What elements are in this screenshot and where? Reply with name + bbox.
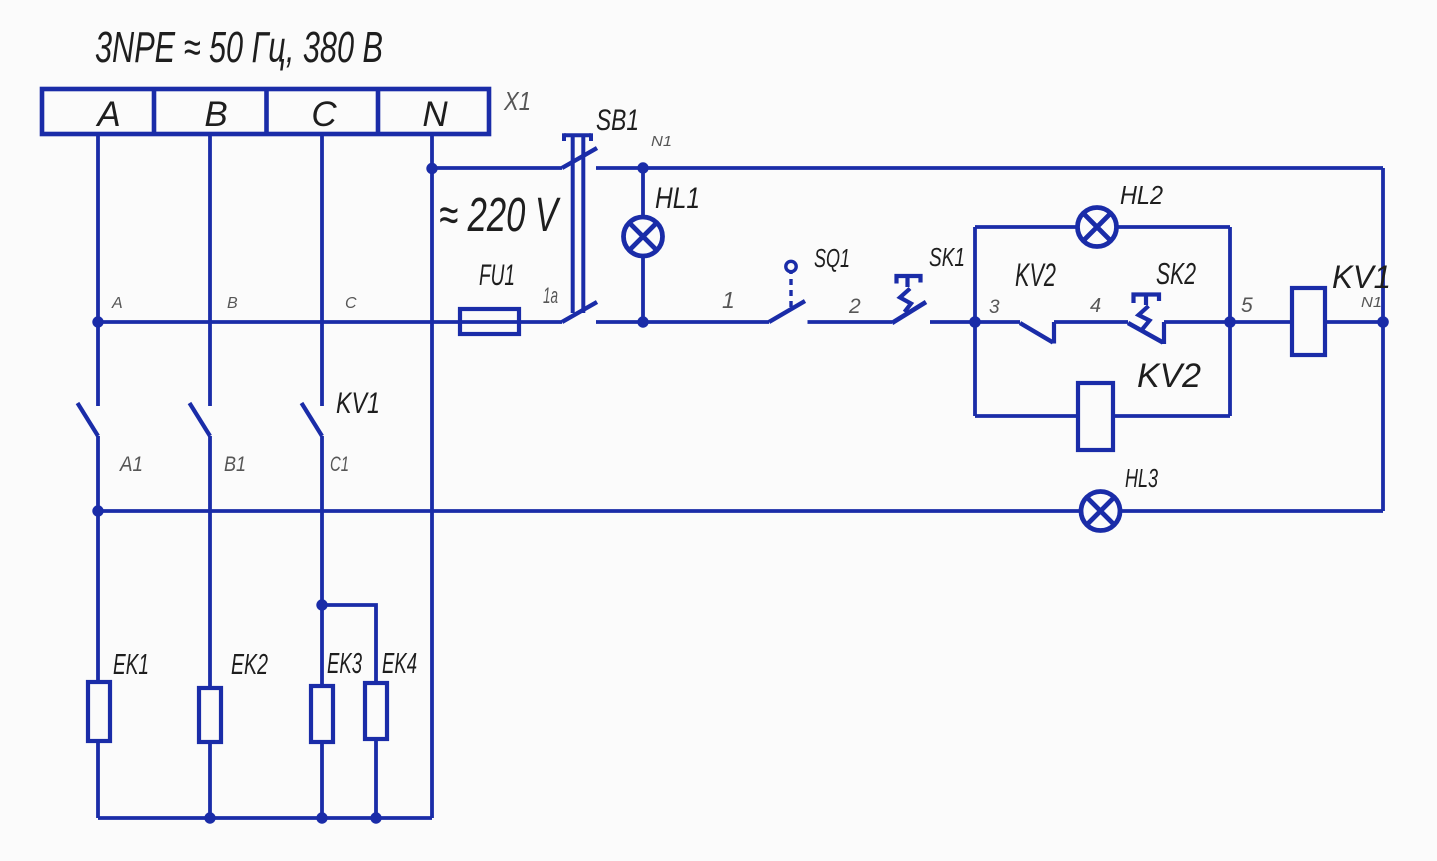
- wire EK2 to bottom rail: [208, 742, 212, 818]
- wire node 1a to SQ1: [596, 320, 769, 324]
- fuse FU1: [460, 309, 519, 334]
- svg-text:EK3: EK3: [327, 648, 362, 680]
- contact KV1 pole C1: [302, 403, 323, 436]
- wire phase B lower vertical: [208, 436, 212, 688]
- node C to EK4 branch: [316, 599, 327, 610]
- lamp HL1: [624, 217, 663, 256]
- wire phase A vertical: [96, 134, 100, 406]
- switch SK1 blade: [892, 302, 926, 323]
- svg-text:2: 2: [848, 295, 861, 318]
- wire EK3 to bottom rail: [320, 742, 324, 818]
- wire HL3 rail: [98, 509, 1383, 513]
- KV2 branch box left vertical: [973, 227, 977, 416]
- wire phase A lower vertical: [96, 436, 100, 682]
- svg-text:SQ1: SQ1: [814, 243, 850, 273]
- svg-text:B1: B1: [224, 453, 246, 476]
- resistor EK1 heating element: [88, 682, 110, 741]
- lamp HL2: [1078, 208, 1117, 247]
- svg-text:C: C: [345, 295, 357, 312]
- node N to top rail: [426, 163, 437, 174]
- resistor EK4 heating element: [365, 683, 387, 739]
- node HL1 bottom: [637, 316, 648, 327]
- contact SK2 NC stop tick: [1162, 322, 1166, 344]
- wire node 4: [1054, 320, 1128, 324]
- wire phase rail: [98, 320, 562, 324]
- switch SQ1 actuator dashed link: [789, 273, 792, 307]
- svg-text:SK1: SK1: [929, 242, 965, 272]
- wire phase C lower vertical: [320, 436, 324, 686]
- svg-text:1a: 1a: [543, 283, 558, 308]
- wire SK1 to node 3: [930, 320, 975, 324]
- coil KV1: [1292, 288, 1325, 355]
- terminal block X1: [42, 89, 489, 134]
- svg-text:5: 5: [1241, 294, 1253, 317]
- svg-text:KV2: KV2: [1137, 357, 1201, 395]
- switch SB1 pole a blade: [562, 148, 597, 168]
- wire node 5 to KV1 coil: [1230, 320, 1292, 324]
- svg-text:HL2: HL2: [1120, 180, 1163, 210]
- wire right edge vertical: [1381, 168, 1385, 511]
- svg-text:KV2: KV2: [1015, 257, 1056, 293]
- wire N1 top rail right: [596, 166, 1383, 170]
- contact SK2 thermal symbol: [1134, 295, 1160, 330]
- svg-text:N1: N1: [1361, 294, 1382, 311]
- svg-text:B: B: [204, 95, 227, 134]
- contact SK2 NC blade: [1128, 323, 1163, 343]
- node 3 junction: [969, 316, 981, 328]
- switch SQ1 actuator roller: [786, 261, 796, 271]
- wire node 1 to SK1: [808, 320, 893, 324]
- lamp HL3: [1081, 492, 1120, 531]
- svg-text:1: 1: [722, 287, 735, 313]
- node N1 right junction: [1377, 316, 1389, 328]
- svg-text:4: 4: [1090, 295, 1101, 317]
- svg-text:KV1: KV1: [1332, 259, 1391, 295]
- svg-text:C: C: [311, 95, 337, 134]
- contact KV1 pole B1: [190, 403, 211, 436]
- switch SQ1 blade: [769, 301, 805, 322]
- switch SB1 pole b blade: [562, 302, 597, 322]
- wire node 3 to KV2 contact: [975, 320, 1020, 324]
- node A to phase rail: [92, 316, 103, 327]
- contact KV2 NC stop tick: [1052, 322, 1056, 344]
- svg-text:C1: C1: [330, 453, 349, 476]
- svg-text:X1: X1: [503, 86, 531, 116]
- svg-text:EK1: EK1: [113, 649, 149, 681]
- svg-text:EK4: EK4: [382, 648, 417, 680]
- wire EK1 to bottom rail: [96, 741, 100, 818]
- node HL1 top N1: [637, 162, 648, 173]
- switch SB1 linkage: [564, 133, 591, 313]
- svg-text:FU1: FU1: [479, 259, 515, 292]
- svg-text:A: A: [95, 95, 120, 134]
- svg-text:A1: A1: [118, 453, 143, 476]
- coil KV2: [1078, 383, 1113, 450]
- svg-text:EK2: EK2: [231, 649, 268, 681]
- svg-text:HL3: HL3: [1125, 463, 1158, 493]
- wire HL2 top branch: [975, 225, 1230, 229]
- switch SK1 thermal symbol: [897, 276, 921, 312]
- wire N1 top rail left: [432, 166, 562, 170]
- wire SK2 to node 5: [1164, 320, 1230, 324]
- wire branch C to EK4: [322, 605, 376, 683]
- svg-text:SK2: SK2: [1156, 256, 1196, 291]
- svg-text:≈ 220 V: ≈ 220 V: [439, 189, 561, 242]
- resistor EK2 heating element: [199, 688, 221, 742]
- node EK4 bottom: [370, 812, 381, 823]
- contact KV1 pole A1: [78, 403, 99, 436]
- svg-text:A: A: [111, 295, 123, 312]
- svg-text:SB1: SB1: [596, 104, 639, 137]
- svg-text:B: B: [227, 295, 238, 312]
- wire KV1 coil to N1: [1325, 320, 1383, 324]
- KV2 branch box right vertical: [1228, 227, 1232, 416]
- svg-text:N1: N1: [651, 133, 672, 150]
- node A1 to HL3 rail: [92, 505, 103, 516]
- resistor EK3 heating element: [311, 686, 333, 742]
- wire EK4 to bottom rail: [374, 739, 378, 818]
- wire KV2 coil bottom branch: [975, 414, 1230, 418]
- wire bottom rail: [98, 816, 432, 820]
- lamp HL1 leads: [641, 168, 645, 322]
- contact KV2 NC blade: [1020, 323, 1053, 343]
- wire phase B vertical: [208, 134, 212, 406]
- svg-text:KV1: KV1: [336, 387, 380, 420]
- svg-text:3: 3: [989, 297, 1000, 318]
- node EK3 bottom: [316, 812, 327, 823]
- wire phase C vertical: [320, 134, 324, 406]
- node 5 junction: [1224, 316, 1236, 328]
- svg-text:N: N: [422, 95, 448, 134]
- svg-text:3NPE ≈ 50 Гц, 380 В: 3NPE ≈ 50 Гц, 380 В: [95, 23, 383, 72]
- wire neutral N vertical: [430, 134, 434, 818]
- node EK2 bottom: [204, 812, 215, 823]
- svg-text:HL1: HL1: [655, 182, 700, 215]
